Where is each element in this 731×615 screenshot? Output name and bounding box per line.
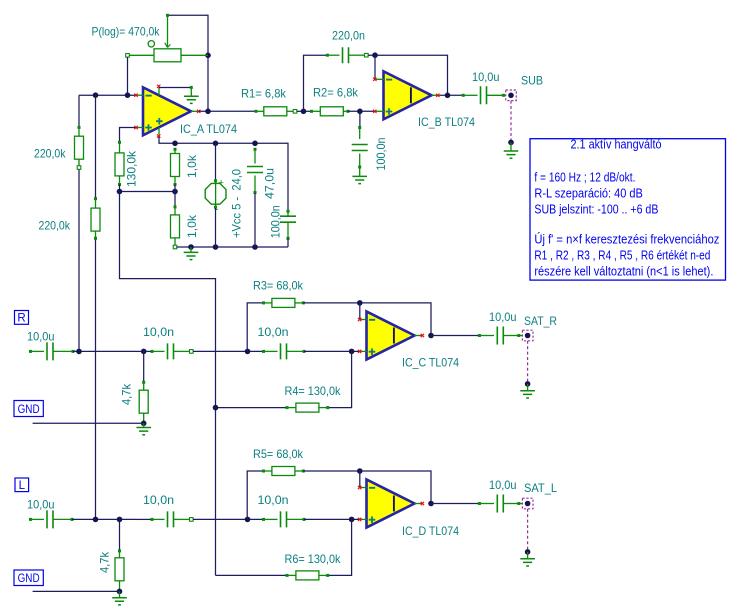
wire R row (73, 350, 136, 352)
junction ground rail x=255 (252, 244, 258, 250)
junction ground rail x=191 (188, 244, 194, 250)
junction L row x=119.5 (117, 517, 123, 523)
svg-text:10,0u: 10,0u (27, 498, 55, 512)
wire IC_A output row (199, 110, 256, 112)
resistor 1,0k (upper divider) (174, 148, 177, 151)
junction SAT_R ground node (525, 381, 531, 387)
svg-text:220,0n: 220,0n (332, 29, 365, 43)
wire R5 to IC_D output (303, 471, 431, 504)
wire pot-left to inverting input (127, 57, 129, 95)
pin IC_A non-inverting input (137, 127, 144, 129)
svg-text:SUB jelszint: -100 .. +6 dB: SUB jelszint: -100 .. +6 dB (534, 202, 658, 216)
resistor R6= 130,0k (bias) (328, 519, 352, 575)
junction R row x=247.5 (245, 349, 251, 355)
junction R3 / IC_C minus (357, 300, 363, 306)
pin IC_C non-inverting input (360, 350, 368, 352)
svg-text:R6= 130,0k: R6= 130,0k (285, 552, 342, 566)
capacitor 10,0n (R row second) (262, 350, 265, 353)
svg-text:részére kell változtatni (n<1: részére kell változtatni (n<1 is lehet). (534, 264, 713, 278)
svg-text:10,0n: 10,0n (143, 493, 174, 507)
svg-text:220,0k: 220,0k (39, 219, 71, 233)
wire R2 to IC_B plus input (348, 110, 375, 112)
ground at SAT_R terminal (527, 384, 529, 391)
pin IC_A output (191, 110, 199, 112)
wire pot-wiper to output net (top) (168, 15, 209, 111)
resistor 1,0k (lower divider) (174, 205, 177, 208)
svg-text:130,0k: 130,0k (125, 150, 139, 187)
svg-text:IC_B TL074: IC_B TL074 (418, 115, 475, 129)
capacitor 10,0n (L row second) (262, 518, 265, 521)
svg-text:2.1 aktív hangváltó: 2.1 aktív hangváltó (571, 138, 662, 152)
resistor 220,0k (lower) (94, 197, 97, 200)
junction mid rail right (172, 189, 178, 195)
junction ground rail x=215.5 (213, 244, 219, 250)
junction R ground node (141, 421, 147, 427)
junction R row x=79 (76, 349, 82, 355)
terminal GND box (L) (14, 570, 43, 586)
wire R row node to first 10,0n (136, 350, 152, 352)
junction IC_B output (445, 93, 451, 99)
svg-text:10,0n: 10,0n (143, 325, 174, 339)
junction R1/R2 (301, 109, 307, 115)
svg-text:10,0u: 10,0u (489, 478, 517, 492)
svg-text:R: R (17, 313, 25, 325)
terminal SAT_R (522, 330, 533, 341)
capacitor 100,0n (supply) (287, 210, 290, 213)
svg-text:4,7k: 4,7k (98, 551, 112, 573)
terminal GND box (R) (14, 401, 43, 417)
junction mid rail left (117, 189, 123, 195)
info text box (530, 139, 726, 280)
junction pot right terminal (205, 53, 211, 59)
wire mid rail to lower 1,0k (174, 185, 176, 208)
pin IC_A V- (bottom) (158, 127, 160, 134)
wire L GND rail (33, 590, 120, 592)
svg-text:IC_A TL074: IC_A TL074 (180, 122, 237, 136)
svg-text:L: L (19, 480, 26, 492)
junction top rail x=215.5 (213, 141, 219, 147)
svg-text:+Vcc 5 - 24,0: +Vcc 5 - 24,0 (230, 169, 244, 238)
ground at L row (119, 591, 121, 597)
junction IC_D plus node (349, 517, 355, 523)
svg-text:SAT_R: SAT_R (524, 314, 557, 328)
wire inverting input row (79, 94, 136, 96)
wire R3 to IC_C output (303, 303, 431, 336)
op-amp U IC_A TL074 (143, 87, 191, 135)
wire IC_A plus input to bias divider (120, 128, 136, 143)
op-amp U IC_B TL074 (384, 71, 432, 119)
terminal SAT_L (522, 498, 533, 509)
svg-text:10,0u: 10,0u (489, 310, 517, 324)
junction SAT_L ground node (525, 549, 531, 555)
wire to IC_C plus input (304, 350, 360, 352)
wire IC_C output to SAT_R cap (431, 335, 479, 337)
pin IC_D output (415, 503, 424, 505)
ground at IC_A top pin (190, 86, 193, 89)
ground at SAT_L terminal (527, 552, 529, 559)
capacitor 10,0u (SAT_L) (478, 502, 481, 505)
svg-text:220,0k: 220,0k (34, 147, 66, 161)
wire R row middle (193, 350, 264, 352)
capacitor 10,0n (L row first) (151, 518, 154, 521)
wire ground rail (177, 246, 289, 248)
ground at SUB terminal (510, 142, 512, 150)
svg-text:f = 160 Hz ; 12 dB/okt.: f = 160 Hz ; 12 dB/okt. (534, 171, 635, 185)
junction L row x=95.5 (93, 517, 99, 523)
terminal L input box (15, 478, 29, 492)
wire SUB reference (dashed) (510, 101, 512, 143)
capacitor 220,0n (feedback) (304, 55, 328, 111)
junction R row x=143.7 (141, 349, 147, 355)
wire L row middle (193, 518, 264, 520)
svg-text:4,7k: 4,7k (120, 383, 134, 405)
junction minus-row x=95.5 (93, 92, 99, 98)
pin IC_C output (415, 335, 424, 337)
terminal SUB (506, 90, 517, 101)
pin IC_B inverting input (375, 78, 384, 80)
junction R5 / IC_D minus (357, 468, 363, 474)
junction top rail x=175 (172, 141, 178, 147)
junction L row x=247.5 (245, 517, 251, 523)
junction minus-row x=127.5 (125, 92, 131, 98)
wire SAT_L reference (dashed) (527, 509, 529, 552)
ground at 100,0n (352, 176, 367, 183)
junction IC_C output (428, 333, 434, 339)
svg-text:R4= 130,0k: R4= 130,0k (285, 384, 342, 398)
wire left vertical net R-sum (78, 95, 80, 127)
pin IC_B output (432, 94, 441, 96)
voltage source +Vcc 5 - 24,0 (215, 143, 217, 180)
junction 220n / IC_B minus (372, 52, 378, 58)
wire R GND rail (33, 422, 144, 424)
svg-text:100,0n: 100,0n (269, 205, 283, 238)
svg-text:47,0u: 47,0u (263, 168, 277, 199)
wire IC_A bottom pin to supply rail (159, 137, 288, 212)
resistor 130,0k (bias) (118, 141, 121, 144)
wire L row (72, 518, 136, 520)
svg-text:R3= 68,0k: R3= 68,0k (253, 279, 304, 293)
svg-text:10,0u: 10,0u (472, 70, 500, 84)
svg-text:+: + (219, 178, 224, 188)
junction IC_C plus node (349, 349, 355, 355)
wire L row node to first 10,0n (136, 518, 152, 520)
resistor R3= 68,0k (feedback) (247, 303, 263, 352)
svg-text:GND: GND (18, 404, 40, 416)
svg-text:10,0u: 10,0u (27, 330, 55, 344)
wire to IC_C inverting input (359, 303, 361, 320)
svg-text:GND: GND (18, 573, 40, 585)
pin IC_D inverting input (360, 487, 367, 489)
junction IC_A output x=208 (205, 109, 211, 115)
pin IC_A inverting input (137, 94, 144, 96)
capacitor 10,0u (R input) (29, 350, 32, 353)
svg-text:R1 , R2 , R3 , R4 , R5 , R6 ér: R1 , R2 , R3 , R4 , R5 , R6 értékét n-ed (534, 249, 710, 263)
wire IC_A top pin to ground (159, 87, 191, 89)
junction L ground node (117, 589, 123, 595)
op-amp U IC_C TL074 (367, 312, 415, 360)
pin IC_D non-inverting input (360, 518, 368, 520)
svg-text:10,0n: 10,0n (258, 493, 289, 507)
ground at R row (143, 423, 145, 427)
svg-text:100,0n: 100,0n (374, 138, 388, 171)
wire bias mid rail (120, 185, 176, 192)
wire to IC_D plus input (304, 518, 360, 520)
junction IC_B plus node (357, 109, 363, 115)
capacitor 100,0n (IC_B input filter) (359, 111, 361, 127)
op-amp U IC_D TL074 (367, 480, 415, 528)
junction top rail x=255 (252, 141, 258, 147)
resistor 220,0k (upper) (78, 126, 81, 129)
wire left vertical net L-sum (95, 95, 97, 198)
wire IC_D output to SAT_L cap (431, 503, 479, 505)
svg-text:R1= 6,8k: R1= 6,8k (241, 87, 287, 101)
wire IC_B output to SUB cap (440, 94, 463, 96)
capacitor 10,0u (SAT_R) (478, 334, 481, 337)
resistor R1= 6,8k (255, 110, 258, 113)
capacitor 10,0n (R row first) (151, 350, 154, 353)
pin IC_C inverting input (360, 319, 367, 321)
resistor R2= 6,8k (310, 110, 313, 113)
svg-text:1,0k: 1,0k (185, 214, 199, 238)
svg-text:IC_D TL074: IC_D TL074 (402, 524, 459, 538)
svg-text:SUB: SUB (521, 74, 543, 88)
svg-text:R2= 6,8k: R2= 6,8k (313, 86, 359, 100)
resistor R5= 68,0k (feedback) (247, 471, 263, 519)
wire bias feed to R4/R6 (120, 192, 216, 576)
pin IC_A V+ (top) (158, 87, 160, 96)
junction SUB ground node (508, 140, 514, 146)
junction IC_D output (428, 501, 434, 507)
capacitor 10,0u (SUB) (462, 94, 465, 97)
resistor 4,7k (R row) (143, 351, 145, 382)
svg-text:1,0k: 1,0k (185, 154, 199, 178)
wire to IC_B inverting input (374, 55, 376, 79)
svg-text:R-L szeparáció: 40 dB: R-L szeparáció: 40 dB (534, 186, 643, 200)
potentiometer P(log) 470k (166, 14, 169, 17)
terminal R input box (15, 311, 29, 325)
wire to IC_D inverting input (359, 471, 361, 488)
capacitor 10,0u (L input) (29, 518, 32, 521)
wire SAT_R reference (dashed) (527, 341, 529, 384)
svg-text:IC_C TL074: IC_C TL074 (402, 356, 459, 370)
pin IC_B non-inverting input (375, 110, 384, 112)
svg-text:R5= 68,0k: R5= 68,0k (253, 447, 304, 461)
svg-text:Új f' = n×f keresztezési frekv: Új f' = n×f keresztezési frekvenciához (534, 232, 719, 247)
resistor R4= 130,0k (bias) (328, 351, 352, 407)
ground at supply rail (190, 247, 192, 252)
capacitor 47,0u (254, 148, 257, 151)
svg-text:SAT_L: SAT_L (524, 481, 557, 495)
svg-text:10,0n: 10,0n (258, 325, 289, 339)
resistor 4,7k (L row) (119, 519, 121, 551)
svg-text:P(log)= 470,0k: P(log)= 470,0k (92, 24, 161, 38)
wire R1-R2 node (297, 110, 312, 112)
junction bias rail / R4 (213, 405, 219, 411)
